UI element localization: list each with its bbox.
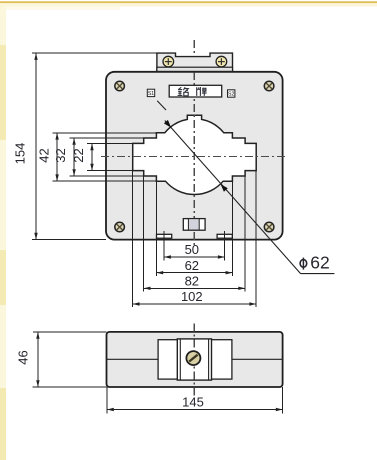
corner screw top-left — [115, 81, 125, 91]
terminal screw left — [163, 56, 174, 67]
ext line bottom (body bottom) for 154 — [32, 239, 106, 241]
nameplate box — [169, 85, 222, 97]
corner screw top-right — [264, 81, 274, 91]
ext vertical for 82 left — [143, 176, 145, 292]
mounting foot slot right — [217, 234, 232, 238]
S1 label box — [147, 89, 154, 96]
phi62 arrowhead lower (points at circle edge) — [221, 184, 228, 192]
yellow left edge band — [0, 6, 6, 460]
ext vertical right for 145 — [282, 387, 284, 414]
svg-text:S2: S2 — [228, 92, 234, 98]
svg-text:62: 62 — [310, 252, 329, 272]
dimension 145 — [107, 395, 283, 412]
svg-text:32: 32 — [53, 148, 68, 162]
svg-text:62: 62 — [185, 258, 199, 273]
svg-text:22: 22 — [71, 148, 86, 162]
bottom view mid parting line right — [232, 358, 283, 360]
bottom view white terminal recess — [158, 340, 232, 379]
svg-text:154: 154 — [12, 143, 27, 165]
svg-text:82: 82 — [185, 274, 199, 289]
terminal block on top — [157, 53, 233, 72]
CT main body (rounded square) — [106, 72, 283, 240]
ext vertical for 102 left — [132, 171, 134, 308]
ext line bottom for 46 — [33, 386, 107, 388]
dimension 46 — [16, 332, 40, 387]
bottom view body — [107, 332, 283, 387]
vertical centerline (front view) — [193, 40, 195, 247]
ext vertical for 50 right — [224, 231, 226, 261]
bottom view mid parting line left — [107, 358, 159, 360]
ext vertical for 62 right — [231, 181, 233, 276]
phi62 arrowhead upper (points at circle edge) — [164, 120, 171, 128]
nameplate text 铭 (drawn strokes) — [178, 87, 189, 96]
corner screw bottom-left — [115, 222, 125, 232]
S1 leader line — [157, 101, 166, 110]
S2 label box — [228, 90, 235, 97]
svg-text:S1: S1 — [148, 91, 154, 97]
dimension 82 — [144, 274, 245, 291]
terminal screw right — [216, 56, 227, 67]
ext line top of 22 band — [87, 142, 133, 144]
ext line bottom of 42 band — [53, 180, 157, 182]
dimension 32 — [53, 138, 76, 176]
ext line top (terminal top) for 154 — [32, 52, 157, 54]
svg-text:50: 50 — [185, 242, 199, 257]
ext line bottom of 22 band — [87, 170, 133, 172]
yellow top edge band — [0, 1, 377, 3]
ext line bottom of 32 band — [70, 175, 144, 177]
phi62 leader underline — [301, 273, 335, 275]
ext vertical for 62 left — [155, 181, 157, 276]
ext vertical for 50 left (through foot) — [163, 231, 165, 261]
svg-text:42: 42 — [37, 148, 52, 162]
horizontal centerline (front view) — [101, 156, 287, 158]
mounting foot slot left — [157, 234, 172, 238]
window cutout (stepped slot + circle phi62 + top key tab) — [133, 115, 257, 194]
dimension 42 — [37, 133, 59, 181]
bottom view centerline — [193, 324, 195, 396]
ext vertical for 82 right — [244, 176, 246, 292]
bottom view screw — [186, 351, 200, 365]
ext line top of 32 band — [70, 137, 144, 139]
corner screw bottom-right — [264, 222, 274, 232]
svg-text:145: 145 — [182, 395, 204, 410]
nameplate text 牌 (drawn strokes) — [197, 87, 207, 96]
ext vertical for 102 right — [255, 171, 257, 308]
ext vertical left for 145 — [106, 387, 108, 414]
small label window at bottom center of body — [183, 219, 205, 231]
ext line top of 42 band — [53, 132, 157, 134]
dimension 22 — [71, 143, 94, 170]
ext line top for 46 — [33, 331, 107, 333]
terminal base bar — [157, 67, 233, 71]
dimension 102 — [133, 289, 257, 306]
dimension 62 — [156, 258, 232, 275]
dimension 154 — [12, 53, 37, 240]
dimension 50 — [164, 242, 225, 259]
phi62 symbol (drawn) — [300, 258, 307, 270]
phi62 leader line — [165, 121, 301, 274]
svg-text:102: 102 — [181, 289, 203, 304]
svg-text:46: 46 — [16, 350, 31, 364]
bottom view center block — [177, 339, 211, 380]
